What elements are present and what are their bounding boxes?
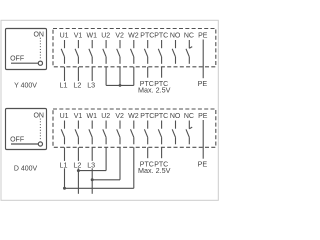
terminal label PE (PE) box 1 <box>198 33 208 40</box>
contact W1 box 1 <box>89 40 92 64</box>
svg-text:U2: U2 <box>101 113 110 120</box>
contact NC box 2 <box>186 121 192 145</box>
terminal label V2 (V2) box 2 <box>115 113 124 120</box>
svg-text:V2: V2 <box>115 33 124 40</box>
svg-text:V1: V1 <box>74 113 83 120</box>
terminal label NC (NC) box 2 <box>184 113 194 120</box>
terminal label V1 (V1) box 1 <box>74 33 83 40</box>
switch S2 dotted travel line <box>39 119 41 141</box>
contact V1 box 1 <box>75 40 78 64</box>
contact U1 box 1 <box>61 40 64 64</box>
contact V1 box 2 <box>75 121 78 145</box>
svg-text:PTC: PTC <box>154 113 168 120</box>
PE conductor box 2 <box>202 120 204 159</box>
svg-text:PE: PE <box>198 33 208 40</box>
contact NO box 1 <box>172 40 175 64</box>
svg-text:W2: W2 <box>128 33 139 40</box>
Y 400V config label <box>14 82 37 89</box>
svg-text:L1: L1 <box>60 161 68 170</box>
svg-text:ON: ON <box>33 112 44 119</box>
contact W1 box 2 <box>89 121 92 145</box>
Max 2.5V label box 1 <box>138 86 171 95</box>
star-point bridge bar <box>106 84 134 86</box>
terminal label PTC (PTC2) box 1 <box>154 33 168 40</box>
contact V2 box 1 <box>117 40 120 64</box>
svg-text:PTC: PTC <box>140 113 154 120</box>
terminal label V1 (V1) box 2 <box>74 113 83 120</box>
switch S1 box <box>6 29 47 70</box>
Max 2.5V label box 2 <box>138 166 171 175</box>
terminal label U2 (U2) box 2 <box>101 113 110 120</box>
svg-text:L3: L3 <box>87 81 95 90</box>
supply wire L1 (to U1) <box>64 67 66 81</box>
contact PTC1 box 2 <box>144 121 147 145</box>
terminal label W1 (W1) box 1 <box>87 33 98 40</box>
svg-text:NO: NO <box>170 113 181 120</box>
svg-text:V1: V1 <box>74 33 83 40</box>
svg-text:V2: V2 <box>115 113 124 120</box>
contact U2 box 2 <box>103 121 106 145</box>
contact PTC1 box 1 <box>144 40 147 64</box>
star-point wire U2 down <box>105 67 107 86</box>
supply label L2 <box>71 161 81 170</box>
svg-text:U1: U1 <box>60 33 69 40</box>
supply wire L2 (to V1) <box>77 67 79 81</box>
svg-text:NO: NO <box>170 33 181 40</box>
PTC label 1 box 1 <box>140 81 154 88</box>
PTC stub 1 box 2 <box>147 147 149 158</box>
terminal label PTC (PTC1) box 2 <box>140 113 154 120</box>
contact PTC2 box 2 <box>158 121 161 145</box>
terminal label PE (PE) box 2 <box>198 113 208 120</box>
switch S2 pivot circle <box>38 142 42 146</box>
terminal box TB2 (dashed) <box>53 109 216 147</box>
terminal label NO (NO) box 2 <box>170 113 181 120</box>
junction dot U1-W2 <box>63 187 66 190</box>
svg-text:L3: L3 <box>87 161 95 170</box>
PTC label 2 box 1 <box>154 81 168 88</box>
svg-text:D 400V: D 400V <box>14 165 38 172</box>
junction dot V1-U2 <box>77 169 80 172</box>
svg-text:NC: NC <box>184 33 194 40</box>
PTC stub 2 box 2 <box>161 147 163 158</box>
star-point wire V2 down <box>119 67 121 86</box>
svg-text:PE: PE <box>198 79 208 88</box>
terminal label W1 (W1) box 2 <box>87 113 98 120</box>
delta bridge wire W1-V2 <box>92 147 120 180</box>
switch S1 lever wire <box>11 62 38 64</box>
terminal label NO (NO) box 1 <box>170 33 181 40</box>
terminal label U1 (U1) box 2 <box>60 113 69 120</box>
switch S1 pivot circle <box>38 61 42 65</box>
svg-text:W1: W1 <box>87 113 98 120</box>
terminal label W2 (W2) box 1 <box>128 33 139 40</box>
svg-text:L1: L1 <box>60 81 68 90</box>
star-point wire W2 down <box>133 67 135 86</box>
terminal box TB1 (dashed) <box>53 29 216 67</box>
PE wire label box 2 <box>198 160 208 169</box>
supply label L1 <box>60 81 68 90</box>
terminal label V2 (V2) box 1 <box>115 33 124 40</box>
terminal label PTC (PTC2) box 2 <box>154 113 168 120</box>
PTC label 1 box 2 <box>140 162 154 169</box>
PE conductor box 1 <box>202 40 204 79</box>
PE wire label box 1 <box>198 79 208 88</box>
svg-text:Y 400V: Y 400V <box>14 82 37 89</box>
switch S1 dotted travel line <box>39 38 41 60</box>
svg-text:U1: U1 <box>60 113 69 120</box>
supply wire L3 (to W1) <box>91 147 93 194</box>
svg-text:Max. 2.5V: Max. 2.5V <box>138 86 171 95</box>
supply label L2 <box>73 81 81 90</box>
border frame <box>1 20 218 200</box>
supply wire L1 (to U1) <box>64 147 66 188</box>
contact W2 box 1 <box>131 40 134 64</box>
contact V2 box 2 <box>117 121 120 145</box>
supply wire L2 (to V1) <box>77 147 79 194</box>
svg-text:PE: PE <box>198 113 208 120</box>
delta bridge wire U1-W2 <box>65 147 134 188</box>
supply wire L3 (to W1) <box>91 67 93 81</box>
svg-text:PTC: PTC <box>154 33 168 40</box>
svg-text:ON: ON <box>33 32 44 39</box>
contact NO box 2 <box>172 121 175 145</box>
supply label L3 <box>87 81 95 90</box>
contact PTC2 box 1 <box>158 40 161 64</box>
terminal label U1 (U1) box 1 <box>60 33 69 40</box>
svg-text:NC: NC <box>184 113 194 120</box>
svg-text:U2: U2 <box>101 33 110 40</box>
svg-text:W1: W1 <box>87 33 98 40</box>
PTC label 2 box 2 <box>154 162 168 169</box>
svg-text:OFF: OFF <box>10 56 24 63</box>
star-point junction dot <box>119 84 122 87</box>
contact U2 box 1 <box>103 40 106 64</box>
svg-text:W2: W2 <box>128 113 139 120</box>
svg-text:L2: L2 <box>73 161 81 170</box>
PTC stub 1 box 1 <box>147 67 149 78</box>
svg-text:Max. 2.5V: Max. 2.5V <box>138 166 171 175</box>
terminal label W2 (W2) box 2 <box>128 113 139 120</box>
terminal label NC (NC) box 1 <box>184 33 194 40</box>
svg-text:PE: PE <box>198 160 208 169</box>
switch S2 ON label <box>33 112 44 119</box>
contact U1 box 2 <box>61 121 64 145</box>
switch S2 box <box>6 109 47 150</box>
svg-text:OFF: OFF <box>10 136 24 143</box>
contact NC box 1 <box>186 40 192 64</box>
delta bridge wire V1-U2 <box>78 147 106 170</box>
switch S1 OFF label <box>10 56 24 63</box>
svg-text:PTC: PTC <box>140 33 154 40</box>
contact W2 box 2 <box>131 121 134 145</box>
terminal label U2 (U2) box 1 <box>101 33 110 40</box>
PTC stub 2 box 1 <box>161 67 163 78</box>
terminal label PTC (PTC1) box 1 <box>140 33 154 40</box>
D 400V config label <box>14 165 38 172</box>
junction dot W1-V2 <box>91 178 94 181</box>
switch S1 ON label <box>33 32 44 39</box>
svg-text:L2: L2 <box>73 81 81 90</box>
supply label L3 <box>85 161 95 170</box>
switch S2 OFF label <box>10 136 24 143</box>
supply label L1 <box>57 161 67 170</box>
switch S2 lever wire <box>11 143 38 145</box>
